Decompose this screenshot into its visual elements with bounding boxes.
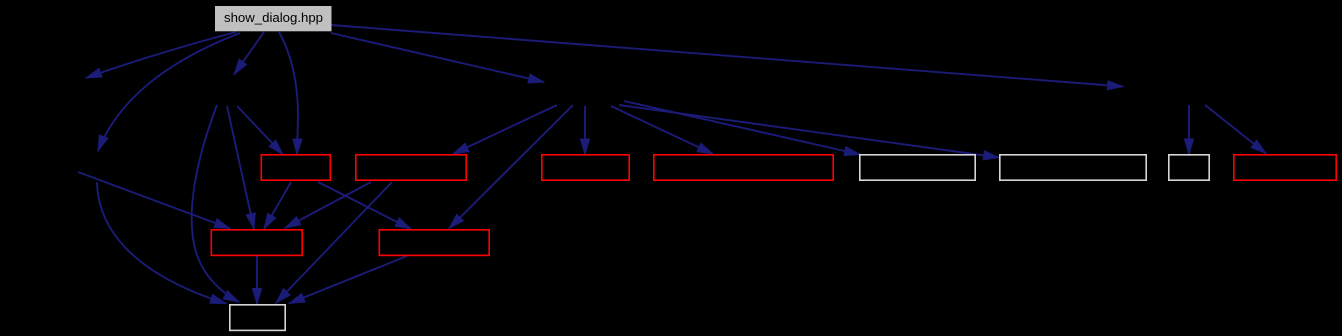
wire A->box J	[318, 182, 411, 229]
wire NR->box H	[1205, 105, 1266, 154]
wire I->box K	[256, 256, 258, 304]
box G (white)	[1169, 155, 1209, 180]
wire S->node L2	[98, 33, 240, 151]
box J (red)	[379, 230, 489, 256]
wire NM->box E	[624, 101, 860, 155]
wire S->node NM	[331, 33, 544, 82]
wire NM->box J	[449, 105, 573, 229]
wire L2->box I	[78, 172, 230, 229]
box B (red)	[356, 155, 466, 180]
wire hub2->box K	[192, 105, 239, 302]
wire NR->box G	[1188, 105, 1190, 155]
wire S->node hub2	[234, 32, 264, 75]
wire S->node NL	[86, 32, 236, 78]
wire S->node NR	[331, 25, 1123, 87]
box K (white)	[230, 305, 285, 331]
wire S->box A	[279, 32, 298, 155]
wire B->box I	[285, 182, 371, 228]
box I (red)	[211, 230, 302, 256]
wire hub2->box A	[237, 106, 283, 155]
box D (red)	[654, 155, 833, 180]
wire hub2->box I	[227, 106, 254, 229]
svg-text:show_dialog.hpp: show_dialog.hpp	[224, 10, 323, 25]
box F (white)	[1000, 155, 1146, 180]
wire A->box I	[264, 182, 291, 229]
node S show_dialog.hpp	[215, 6, 332, 31]
box A (red)	[261, 155, 330, 180]
wire NM->box F	[619, 105, 999, 158]
wire B->box K	[276, 182, 392, 303]
wire NM->box D	[611, 106, 713, 154]
box C (red)	[542, 155, 629, 180]
wire J->box K	[289, 256, 407, 304]
wire NM->box B	[453, 105, 557, 154]
wire L2->box K	[97, 182, 226, 304]
wire NM->box C	[584, 106, 586, 155]
box E (white)	[860, 155, 975, 180]
box H (red)	[1234, 155, 1336, 180]
